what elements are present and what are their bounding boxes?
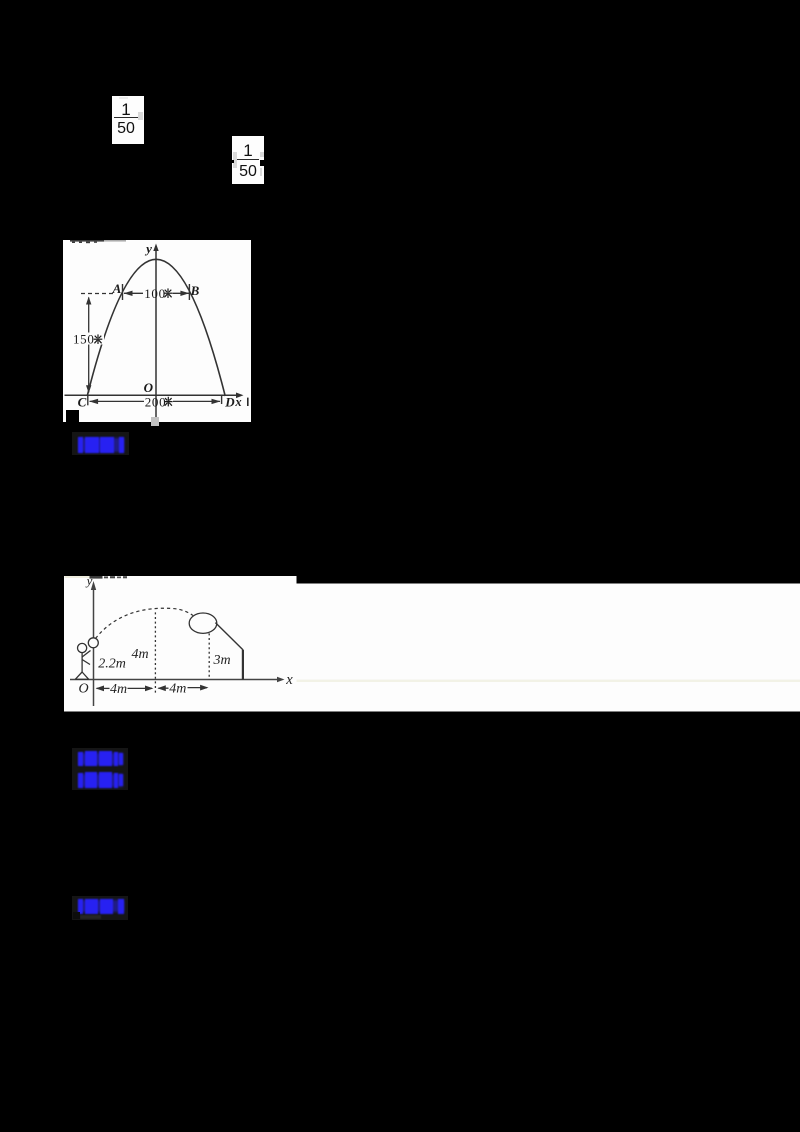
svg-text:200: 200 — [145, 395, 167, 410]
parabola curve — [87, 259, 225, 396]
gray tab below diagram 1 y-axis — [151, 417, 159, 427]
stick figure person — [75, 643, 90, 679]
svg-text:100: 100 — [144, 286, 166, 301]
svg-text:x: x — [234, 395, 241, 409]
x-axis — [65, 394, 240, 396]
diagram 1: parabola bridge figure — [63, 240, 251, 422]
answer link 2 【答案】 — [72, 896, 128, 920]
svg-text:y: y — [84, 576, 92, 588]
dotted vertical line 1 — [154, 612, 156, 693]
ball at hoop (ellipse) — [189, 613, 217, 633]
100米 double arrow — [124, 292, 143, 294]
A tick — [122, 284, 124, 300]
answer link 1 【答案】 — [72, 432, 129, 455]
svg-text:150: 150 — [73, 332, 95, 347]
dotted vertical line 2 — [208, 633, 210, 679]
diagram 2: basketball throw figure — [64, 576, 800, 712]
bottom arrow segment 2 (4m) — [158, 687, 168, 689]
150米 vertical double arrow — [88, 298, 90, 393]
svg-text:4m: 4m — [131, 647, 148, 662]
white image area (right band) — [296, 584, 800, 712]
hoop pole — [241, 650, 243, 680]
svg-text:4m: 4m — [169, 682, 186, 697]
y-axis — [92, 585, 94, 706]
x-axis — [70, 679, 281, 681]
partial glyph at right edge — [247, 398, 249, 406]
svg-text:4m: 4m — [109, 682, 126, 697]
white image area (tall left part) — [64, 576, 297, 712]
B tick — [188, 284, 190, 300]
svg-text:O: O — [144, 380, 154, 395]
bottom arrow segment 1 (4m) — [96, 687, 109, 689]
svg-text:D: D — [224, 395, 235, 410]
faint axis continuation line — [296, 680, 800, 682]
black notch marks overlapping fraction 2 edges — [231, 160, 234, 163]
hoop slanted line — [215, 623, 243, 650]
fraction image 1 (1/50) — [112, 96, 144, 144]
svg-text:2.2m: 2.2m — [98, 657, 126, 672]
fraction image 2 (1/50) — [232, 136, 264, 184]
glyph 米 (150米) — [94, 334, 103, 344]
C tick — [87, 395, 89, 405]
y-axis — [155, 246, 157, 421]
glyph 米 (100米) — [164, 288, 173, 298]
svg-text:B: B — [190, 283, 200, 298]
svg-text:y: y — [144, 241, 152, 256]
faint cropped-text smudge at top edge — [70, 240, 126, 243]
dashed trajectory — [95, 608, 193, 638]
analysis link 【分析】 — [72, 748, 128, 790]
svg-text:A: A — [112, 281, 122, 296]
glyph 米 (200米) — [164, 397, 173, 407]
faint remnant text below answer link 2 — [80, 915, 101, 919]
dashed line to A — [81, 293, 113, 295]
svg-text:3m: 3m — [212, 653, 230, 668]
svg-text:O: O — [78, 682, 88, 697]
faint cropped-text smudge at top edge — [64, 576, 127, 579]
svg-text:x: x — [285, 672, 293, 688]
D tick — [221, 395, 223, 404]
black notch at bottom-left corner — [66, 410, 79, 422]
detail link 【详解】 — [78, 773, 83, 788]
200米 bottom double arrow — [90, 400, 144, 402]
ball in hand — [88, 638, 98, 648]
svg-text:C: C — [78, 395, 87, 410]
